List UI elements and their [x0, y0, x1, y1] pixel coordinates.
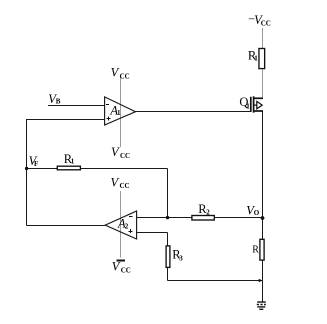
svg-text:1: 1 [117, 109, 121, 117]
svg-text:1: 1 [246, 102, 250, 110]
svg-text:R: R [252, 244, 259, 255]
svg-text:CC: CC [120, 182, 130, 190]
svg-text:CC: CC [261, 20, 271, 28]
svg-text:1: 1 [254, 54, 258, 62]
svg-text:CC: CC [121, 267, 131, 275]
svg-text:CC: CC [120, 72, 130, 80]
svg-text:2: 2 [125, 223, 129, 231]
svg-text:B: B [56, 97, 61, 105]
svg-text:3: 3 [179, 254, 183, 262]
svg-text:F: F [34, 160, 38, 168]
svg-text:CC: CC [120, 152, 130, 160]
svg-text:1: 1 [71, 158, 75, 166]
svg-text:2: 2 [206, 209, 210, 217]
svg-text:O: O [254, 209, 260, 217]
